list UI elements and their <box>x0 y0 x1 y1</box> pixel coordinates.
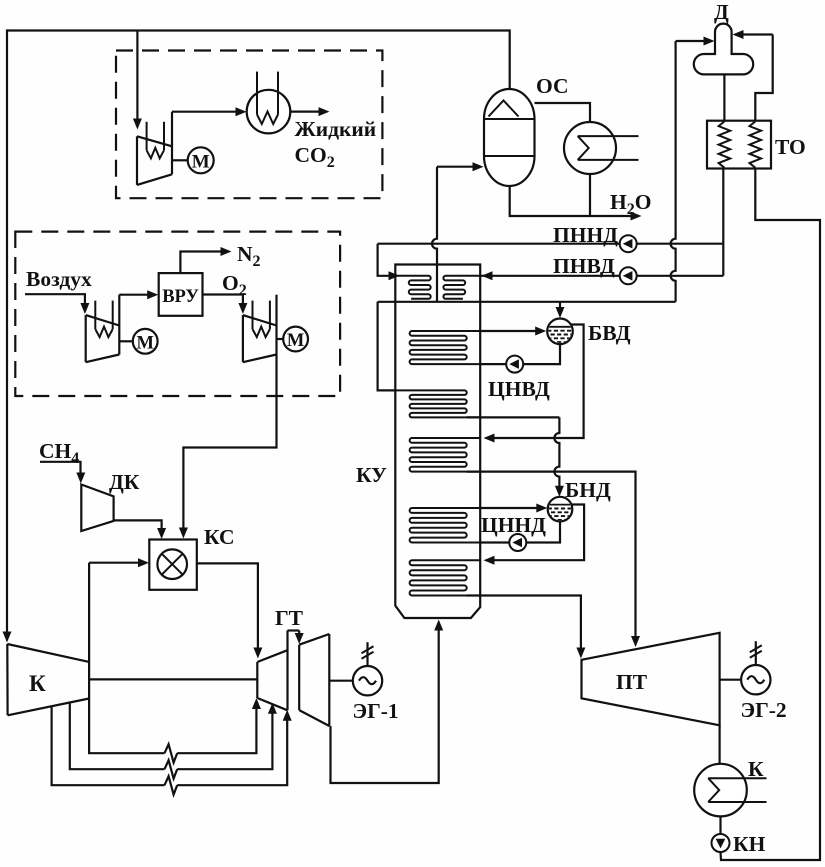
wire liquid CO2 outlet <box>290 110 318 112</box>
wire BVD downcomer <box>524 344 561 364</box>
wire TO left tube down to feed pumps <box>722 169 724 276</box>
svg-text:ВРУ: ВРУ <box>162 287 199 307</box>
CO2 cooler heat exchanger <box>247 90 291 134</box>
generator EG-2 <box>755 641 757 664</box>
wire D right line to TO <box>755 35 772 121</box>
svg-text:ГТ: ГТ <box>275 606 304 630</box>
svg-text:ПТ: ПТ <box>616 670 648 694</box>
pump CNND <box>509 534 526 551</box>
dashed boundary air separation unit <box>15 232 340 396</box>
cooling air line 1 (K to GT) <box>89 699 164 754</box>
svg-text:КС: КС <box>204 525 235 549</box>
wire BND downcomer <box>527 521 560 542</box>
wire boiler steam to OC separator <box>432 167 437 302</box>
svg-text:ЦННД: ЦННД <box>481 513 546 537</box>
LP economizer coil (top left) <box>395 276 430 299</box>
condensate pump KN <box>712 834 730 852</box>
wire condensate to D (right) <box>743 33 773 35</box>
svg-text:БВД: БВД <box>588 321 631 345</box>
wire D bottom to TO <box>723 74 725 120</box>
motor M of O2 compressor <box>277 338 284 340</box>
svg-text:Д: Д <box>714 0 729 24</box>
HP superheater coil <box>410 438 481 472</box>
condenser K circle <box>694 764 747 817</box>
cooling air line 2 (K to GT) <box>70 703 165 770</box>
wire CO2 compressor discharge to cooler <box>172 111 236 113</box>
svg-text:К: К <box>748 757 764 781</box>
wire LP steam to PT <box>467 596 581 649</box>
cooling air line 3 (K to GT) <box>52 706 165 785</box>
deaerator D <box>694 24 753 75</box>
wire flue-gas recirculation from OC separator top to K compressor inlet <box>7 31 510 632</box>
wire left loop to LP economizer 2 <box>378 302 396 391</box>
svg-text:Воздух: Воздух <box>26 267 92 291</box>
heat recovery boiler KU outline <box>395 265 480 619</box>
gas turbine GT crossover pipe <box>288 629 300 631</box>
pump PNND <box>620 235 637 252</box>
steam turbine PT <box>582 633 720 726</box>
shaft PT to EG-2 <box>720 679 742 681</box>
pump CNVD <box>506 356 523 373</box>
HP economizer coil (top right) <box>443 276 480 299</box>
svg-text:КН: КН <box>733 832 766 856</box>
svg-text:ТО: ТО <box>775 135 806 159</box>
wire riser to BVD <box>480 330 537 332</box>
wire HP steam to PT <box>467 472 636 637</box>
air compressor 1 <box>85 315 87 362</box>
wire air inlet <box>25 294 85 303</box>
TO coil right <box>750 122 762 168</box>
wire OC water drain H2O <box>510 186 631 217</box>
motor M of CO2 compressor <box>172 159 188 161</box>
svg-text:К: К <box>29 671 46 696</box>
wire GT exhaust to boiler <box>331 631 439 784</box>
gas cooler circle <box>564 122 616 174</box>
svg-text:ДК: ДК <box>109 470 140 494</box>
gas turbine GT section 1 <box>256 662 258 698</box>
svg-text:ЭГ-1: ЭГ-1 <box>353 699 399 723</box>
wire condensate to D (left) <box>676 40 705 42</box>
svg-text:ЦНВД: ЦНВД <box>488 377 550 401</box>
fuel compressor DK <box>81 485 113 532</box>
wire KS outlet to gas turbine <box>197 563 258 647</box>
wire branch down to CO2 compressor <box>136 31 138 119</box>
LP superheater coil <box>410 560 481 595</box>
svg-text:М: М <box>287 331 304 351</box>
dashed boundary CO2 liquefaction unit <box>116 51 382 199</box>
LP economizer coil 2 <box>395 390 480 417</box>
wire O2 to combustion chamber <box>183 355 276 528</box>
wire cooler drain <box>589 174 591 216</box>
wire BVD steam to HP superheater <box>494 325 584 439</box>
svg-text:М: М <box>192 152 210 173</box>
separator OC vessel <box>484 89 535 186</box>
svg-text:М: М <box>136 333 153 353</box>
O2 compressor <box>242 315 244 362</box>
wire LP feed line PNND <box>378 243 724 245</box>
svg-text:ЭГ-2: ЭГ-2 <box>741 698 787 722</box>
compressor K <box>6 644 8 715</box>
shaft K to GT <box>89 678 257 680</box>
wire air compressor to VRU <box>119 294 148 296</box>
svg-text:ПННД: ПННД <box>553 223 618 247</box>
TO coil left <box>719 122 731 168</box>
pump PNVD <box>620 267 637 284</box>
HP evaporator coil <box>410 331 481 364</box>
air separation unit VRU box <box>159 273 203 316</box>
CO2 compressor <box>136 136 138 185</box>
wire BND steam to LP superheater <box>494 505 584 561</box>
svg-text:КУ: КУ <box>356 463 387 487</box>
wire CH4 inlet <box>40 462 81 473</box>
motor M of air compressor 1 <box>119 340 133 342</box>
wire N2 outlet <box>180 252 221 274</box>
generator EG-1 <box>366 642 368 665</box>
wire PT exhaust to condenser <box>718 725 720 764</box>
wire condenser to pump KN <box>719 816 721 834</box>
wire LP economizer to BND drum <box>467 416 560 418</box>
wire TO right tube to bottom right loop <box>721 169 821 861</box>
svg-text:Жидкий: Жидкий <box>295 117 377 141</box>
shaft GT to EG-1 <box>329 680 353 682</box>
wire DK discharge to KS <box>114 520 162 528</box>
wire K compressor discharge to KS inlet <box>89 562 138 564</box>
svg-text:ПНВД: ПНВД <box>553 254 615 278</box>
wire HP feed line PNVD <box>480 275 723 277</box>
combustion chamber KS box <box>149 540 197 590</box>
LP evaporator coil <box>410 508 481 543</box>
heat exchanger TO box <box>707 121 771 169</box>
svg-text:ОС: ОС <box>536 74 569 98</box>
wire riser to BND <box>480 507 538 509</box>
wire D to feedwater header <box>671 41 676 302</box>
wire feedwater to BVD drum <box>559 302 561 309</box>
svg-text:БНД: БНД <box>565 478 611 502</box>
gas turbine GT section 2 <box>298 645 300 710</box>
wire VRU to O2 compressor <box>203 295 243 304</box>
wire feedwater header across boiler <box>378 301 676 303</box>
wire OC to gas cooler <box>535 103 591 122</box>
